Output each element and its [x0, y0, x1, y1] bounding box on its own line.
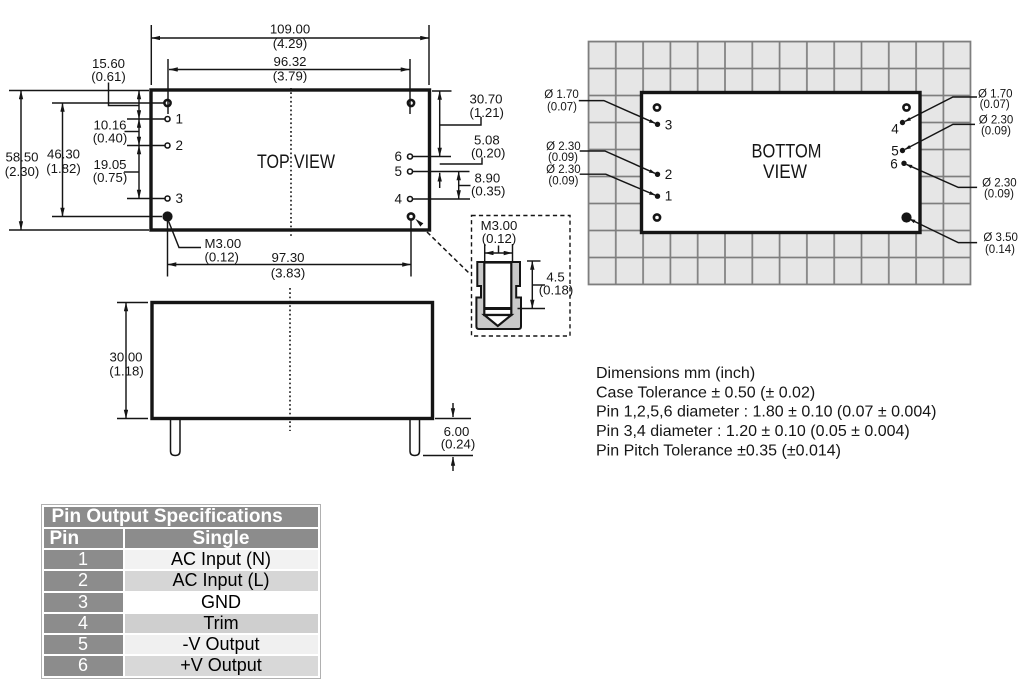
pin 6 tick line (right): [412, 156, 451, 158]
svg-text:(0.09): (0.09): [548, 152, 578, 164]
detail leader dashed line: [427, 232, 471, 275]
svg-text:4: 4: [394, 192, 402, 207]
svg-text:2: 2: [176, 138, 184, 153]
pin 1 (top view): [165, 117, 170, 122]
top view case outline: [151, 90, 430, 230]
bv pin 4: [900, 120, 905, 125]
svg-text:Ø 3.50: Ø 3.50: [983, 232, 1018, 244]
hole row extension line (left): [52, 102, 164, 104]
mounting hole top-left: [164, 100, 170, 106]
dim 97.30 extension lines: [167, 220, 169, 277]
svg-text:97.30: 97.30: [271, 250, 304, 265]
bv pin 3: [655, 122, 660, 127]
insert bore (white): [484, 263, 511, 316]
leader pin6 diam 2.30: [907, 164, 978, 187]
insert cross-section body (gray): [476, 262, 521, 329]
bv mounting hole bottom-right (filled, diam 3.50): [901, 212, 911, 222]
mounting hole top-right: [408, 100, 414, 106]
dim 30.70 line: [439, 91, 441, 157]
dim 30.00 line: [125, 303, 127, 419]
svg-text:(2.30): (2.30): [5, 164, 39, 179]
leader pin3 diam 1.70: [579, 101, 655, 124]
dim 46.30 line: [62, 103, 64, 217]
dim 6.00 extension lines: [435, 418, 471, 420]
svg-text:Dimensions mm (inch): Dimensions mm (inch): [596, 365, 755, 382]
dim 15.60 arrow segment: [138, 91, 140, 120]
bv mounting hole bottom-left: [654, 214, 660, 220]
dim 4.5 extension lines: [527, 260, 541, 262]
detail dashed box: [472, 216, 571, 337]
leader hole diam 3.50: [910, 219, 978, 243]
dim 6.00 outside arrows: [452, 403, 454, 417]
table row pin 2: [44, 571, 318, 590]
svg-text:Pin 3,4 diameter : 1.20 ± 0.10: Pin 3,4 diameter : 1.20 ± 0.10 (0.05 ± 0…: [596, 423, 910, 440]
svg-text:Ø 2.30: Ø 2.30: [546, 141, 581, 153]
svg-text:(1.82): (1.82): [46, 161, 80, 176]
svg-text:1: 1: [176, 112, 184, 127]
svg-text:Ø 2.30: Ø 2.30: [546, 164, 581, 176]
svg-text:5: 5: [394, 164, 402, 179]
mounting hole bottom-left (filled, M3 ref): [162, 211, 172, 221]
detail M3 extension lines: [484, 244, 486, 261]
dim 5.08 leader: [440, 158, 482, 165]
table header row: [44, 529, 318, 548]
table row pin 3: [44, 593, 318, 612]
M3.00 leader (top view): [168, 219, 202, 248]
side view right leg: [410, 420, 420, 456]
side view case outline: [152, 303, 433, 419]
svg-text:(0.20): (0.20): [471, 146, 505, 161]
case top extension line (left): [9, 90, 149, 92]
pin 5 tick line (right): [412, 171, 469, 173]
svg-text:(0.75): (0.75): [93, 170, 127, 185]
pin 3 (top view): [165, 196, 170, 201]
table row pin 4: [44, 614, 318, 633]
svg-text:TOP VIEW: TOP VIEW: [257, 151, 335, 173]
svg-text:(0.09): (0.09): [981, 126, 1011, 138]
svg-text:(0.18): (0.18): [539, 283, 573, 298]
dim 109.00 extension lines: [150, 25, 152, 85]
top view centerline: [290, 88, 292, 237]
svg-text:(0.61): (0.61): [91, 69, 125, 84]
pin 6 (top view): [408, 154, 413, 159]
dim 8.90 leader: [459, 185, 471, 187]
dim 19.05 leader: [124, 171, 139, 173]
side view left leg: [171, 420, 181, 456]
svg-text:VIEW: VIEW: [763, 161, 808, 183]
dim 30.70 top extension line: [432, 90, 452, 92]
svg-text:(0.40): (0.40): [93, 131, 127, 146]
pin 3 tick line: [127, 198, 165, 200]
table row pin 5: [44, 635, 318, 654]
dim 96.32 line: [169, 69, 410, 71]
grid background: [589, 42, 971, 285]
case bottom extension line (left): [9, 229, 149, 231]
dim 4.5 leader: [532, 284, 545, 286]
svg-text:(0.09): (0.09): [984, 189, 1014, 201]
dim 4.5 line: [531, 261, 533, 309]
svg-text:BOTTOM: BOTTOM: [752, 141, 822, 163]
insert drill tip triangle: [484, 315, 511, 326]
svg-text:(1.21): (1.21): [470, 105, 504, 120]
bv pin 2: [655, 172, 660, 177]
table title row: [44, 507, 318, 676]
svg-text:Case Tolerance ± 0.50 (± 0.02): Case Tolerance ± 0.50 (± 0.02): [596, 384, 815, 401]
svg-text:Ø 2.30: Ø 2.30: [982, 177, 1017, 189]
dim 96.32 extension lines: [167, 59, 169, 114]
svg-text:Pin 1,2,5,6 diameter : 1.80 ±: Pin 1,2,5,6 diameter : 1.80 ± 0.10 (0.07…: [596, 404, 936, 421]
bv pin 6: [901, 161, 906, 166]
dim 10.16 leader: [125, 131, 140, 133]
svg-text:(0.14): (0.14): [985, 244, 1015, 256]
svg-text:109.00: 109.00: [270, 22, 310, 37]
detail M3 center tick: [498, 246, 500, 254]
leader pin2 diam 2.30: [580, 151, 655, 173]
dim 5.08 outside arrow: [439, 173, 441, 188]
mounting hole bottom-right: [408, 213, 414, 219]
dim 30.00 extension lines: [117, 302, 148, 304]
svg-text:30.00: 30.00: [109, 350, 142, 365]
dim 109.00 line: [151, 37, 429, 39]
svg-text:(0.09): (0.09): [548, 175, 578, 187]
svg-text:(0.35): (0.35): [471, 184, 505, 199]
svg-text:(0.07): (0.07): [980, 99, 1010, 111]
pin 2 (top view): [165, 143, 170, 148]
insert bore bottom line: [484, 307, 511, 310]
svg-text:(0.07): (0.07): [547, 102, 577, 114]
svg-text:Pin Pitch Tolerance ±0.35 (±0.: Pin Pitch Tolerance ±0.35 (±0.014): [596, 442, 841, 459]
dim 30.70 leader: [440, 117, 481, 125]
bv pin 1: [655, 194, 660, 199]
bottom view case outline: [642, 93, 921, 233]
dim 97.30 line: [168, 264, 412, 266]
detail leader arrowhead at top view corner: [416, 219, 431, 233]
side view centerline: [289, 288, 291, 431]
svg-text:4: 4: [891, 122, 899, 137]
svg-text:6: 6: [394, 149, 402, 164]
svg-text:(4.29): (4.29): [273, 36, 307, 51]
pin 4 tick line (right): [412, 198, 470, 200]
svg-text:46.30: 46.30: [47, 147, 80, 162]
pin 5 (top view): [408, 169, 413, 174]
leader pin5 diam 2.30: [905, 124, 975, 149]
svg-text:58.50: 58.50: [5, 150, 38, 165]
svg-text:(3.83): (3.83): [271, 266, 305, 281]
table row pin 6: [44, 656, 318, 675]
dim 10.16 arrow segment: [138, 119, 140, 146]
dim 8.90 arrow segment: [458, 172, 460, 200]
svg-text:(3.79): (3.79): [273, 69, 307, 84]
dim 15.60 leader: [109, 83, 140, 106]
dim 58.50 line: [20, 91, 22, 231]
dim 19.05 arrow segment: [138, 146, 140, 199]
svg-text:96.32: 96.32: [273, 54, 306, 69]
detail M3 arrow: [485, 252, 513, 254]
svg-text:(1.18): (1.18): [109, 364, 143, 379]
bv pin 5: [900, 148, 905, 153]
svg-text:2: 2: [665, 167, 673, 182]
svg-text:(0.12): (0.12): [482, 231, 516, 246]
svg-text:Ø 2.30: Ø 2.30: [979, 114, 1014, 126]
svg-text:6: 6: [890, 157, 898, 172]
leader pin4 diam 1.70: [905, 97, 977, 121]
svg-text:(0.12): (0.12): [205, 250, 239, 265]
svg-text:3: 3: [176, 191, 184, 206]
pin 1 tick line: [127, 118, 165, 120]
leader pin1 diam 2.30: [580, 174, 655, 195]
pin 2 tick line: [127, 145, 165, 147]
svg-text:3: 3: [665, 118, 673, 133]
bv mounting hole top-left: [654, 104, 660, 110]
svg-text:(0.24): (0.24): [441, 437, 475, 452]
bottom hole row extension line (left): [52, 216, 162, 218]
svg-text:1: 1: [665, 189, 673, 204]
table row pin 1: [44, 550, 318, 569]
svg-text:Ø 1.70: Ø 1.70: [544, 89, 579, 101]
bv mounting hole top-right: [903, 104, 909, 110]
pin 4 (top view): [408, 197, 413, 202]
